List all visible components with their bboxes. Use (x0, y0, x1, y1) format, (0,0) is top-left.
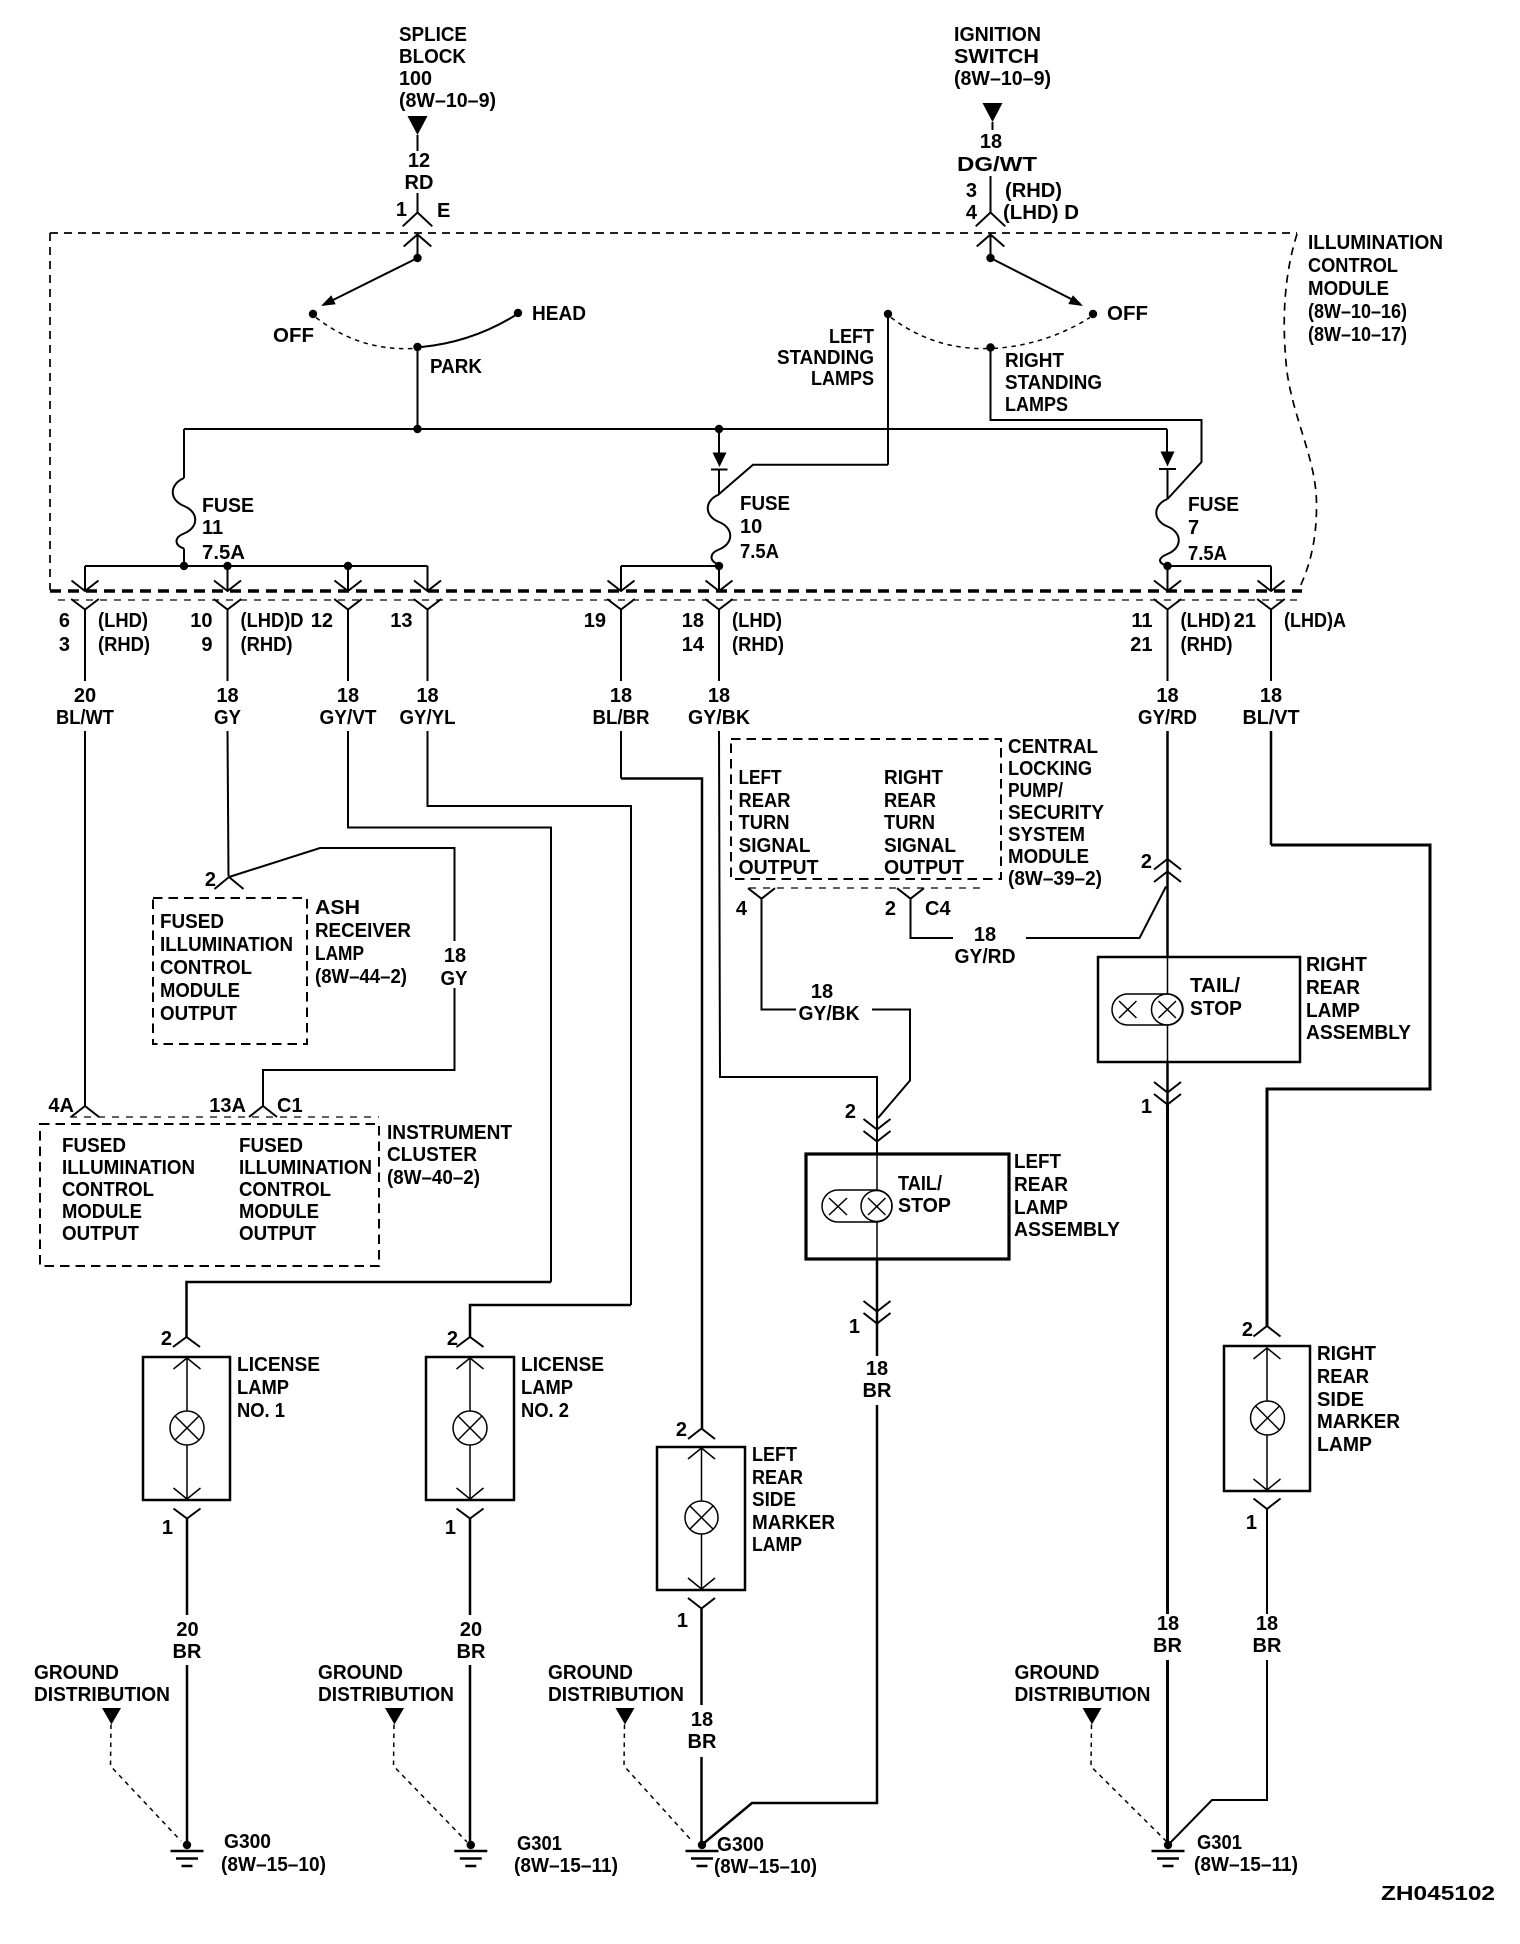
svg-text:1: 1 (677, 1610, 688, 1632)
svg-text:ASSEMBLY: ASSEMBLY (1306, 1022, 1412, 1044)
svg-text:DISTRIBUTION: DISTRIBUTION (318, 1684, 454, 1706)
fuse F11 (173, 478, 196, 549)
wire bus to fuse 10 (718, 429, 720, 453)
svg-text:(LHD)A: (LHD)A (1284, 610, 1346, 632)
inline connector 2 right tail (1154, 859, 1181, 870)
svg-text:18: 18 (980, 131, 1002, 153)
svg-text:1: 1 (849, 1316, 860, 1338)
svg-text:ASH: ASH (315, 897, 360, 919)
svg-text:1: 1 (1141, 1096, 1152, 1118)
wire through left tail box (876, 1154, 878, 1191)
svg-text:18: 18 (216, 685, 238, 707)
connector 4A fork (71, 1106, 99, 1117)
license lamp 1 top arrow (174, 1358, 201, 1369)
module output connector fork x=621 (607, 599, 635, 610)
svg-text:18: 18 (866, 1358, 888, 1380)
svg-text:MODULE: MODULE (1008, 846, 1089, 868)
lamp left rear side marker (685, 1501, 718, 1534)
left marker bottom arrow (701, 1534, 703, 1589)
license lamp 2 connector 1 fork (457, 1509, 484, 1519)
fuse F7 (1156, 499, 1179, 566)
license lamp 2 bottom arrow (469, 1445, 471, 1499)
svg-text:13A: 13A (209, 1095, 246, 1117)
svg-text:2: 2 (885, 898, 896, 920)
svg-text:LAMP: LAMP (1014, 1197, 1068, 1219)
wire 18 GY (227, 610, 229, 682)
svg-text:PUMP/: PUMP/ (1008, 780, 1063, 802)
svg-text:GY/BK: GY/BK (688, 707, 751, 729)
svg-text:LICENSE: LICENSE (521, 1354, 604, 1376)
svg-text:REAR: REAR (1306, 977, 1361, 999)
svg-text:G300: G300 (717, 1834, 764, 1856)
svg-text:CONTROL: CONTROL (62, 1179, 154, 1201)
wire right standing lamps (991, 347, 1202, 499)
svg-text:2: 2 (205, 869, 216, 891)
svg-text:7.5A: 7.5A (202, 542, 245, 564)
wire 18 GY to 13A (263, 988, 455, 1106)
svg-text:11: 11 (202, 517, 223, 539)
wire rail to pin18 (718, 566, 720, 591)
svg-text:(8W–15–10): (8W–15–10) (221, 1854, 326, 1876)
svg-text:(LHD) D: (LHD) D (1003, 202, 1079, 224)
svg-text:DISTRIBUTION: DISTRIBUTION (1015, 1684, 1151, 1706)
module bottom connector line (58, 599, 1299, 601)
wire rail to pin12 (347, 566, 349, 591)
switch wiper arrow to OFF right (991, 258, 1081, 304)
wire from splice block (417, 135, 419, 151)
svg-text:(8W–10–9): (8W–10–9) (954, 68, 1051, 90)
svg-text:C1: C1 (277, 1095, 303, 1117)
svg-text:STANDING: STANDING (777, 347, 874, 369)
svg-text:LAMP: LAMP (1306, 1000, 1360, 1022)
wire PARK down to bus (417, 347, 419, 429)
wire rail to pin11 (1167, 566, 1169, 591)
wire 18 GY/RD (1167, 610, 1169, 682)
svg-text:4A: 4A (48, 1095, 74, 1117)
svg-text:RIGHT: RIGHT (1306, 954, 1367, 976)
module output pin arrow x=621 (608, 581, 635, 592)
svg-text:C4: C4 (925, 898, 951, 920)
svg-text:(8W–44–2): (8W–44–2) (315, 966, 407, 988)
illumination control module left border (49, 233, 51, 590)
svg-text:3: 3 (966, 180, 977, 202)
svg-text:HEAD: HEAD (532, 303, 586, 325)
svg-text:GROUND: GROUND (548, 1662, 633, 1684)
switch arc OFF-PARK dashed (316, 318, 413, 349)
svg-text:MODULE: MODULE (1308, 278, 1389, 300)
illumination control module top border (50, 232, 1297, 234)
pin E male arrow (404, 235, 432, 247)
svg-text:4: 4 (736, 898, 748, 920)
svg-text:G300: G300 (224, 1831, 271, 1853)
wire right marker feed (1267, 845, 1430, 1320)
svg-text:SPLICE: SPLICE (399, 24, 467, 46)
svg-text:18: 18 (811, 981, 833, 1003)
module output pin arrow x=1167.5 (1154, 581, 1181, 592)
svg-text:BR: BR (1153, 1635, 1182, 1657)
wire 20 BR lamp2 lower (469, 1665, 472, 1845)
right marker bottom arrow (1266, 1435, 1268, 1490)
license lamp 1 bottom arrow (186, 1445, 188, 1499)
wire from ignition switch (992, 122, 994, 130)
wire left standing lamps to fuse 10 (719, 465, 889, 495)
svg-text:GY: GY (441, 968, 469, 990)
svg-text:(8W–39–2): (8W–39–2) (1008, 868, 1102, 890)
switch arc right dashed (891, 318, 988, 349)
svg-text:9: 9 (201, 634, 212, 656)
svg-text:DISTRIBUTION: DISTRIBUTION (548, 1684, 684, 1706)
wire left marker feed (621, 779, 702, 1423)
wire 18 GY/YL (427, 610, 429, 682)
svg-text:20: 20 (460, 1619, 482, 1641)
svg-text:BR: BR (457, 1641, 486, 1663)
wire 18 BL/BR (620, 610, 622, 682)
svg-text:REAR: REAR (1317, 1366, 1370, 1388)
junction dot fuse10 out (715, 562, 723, 570)
svg-text:18: 18 (974, 924, 996, 946)
lamp license 1 (170, 1411, 204, 1445)
svg-text:RIGHT: RIGHT (1317, 1343, 1376, 1365)
svg-text:18: 18 (691, 1709, 713, 1731)
wire 18 BR right tail (1166, 1105, 1169, 1615)
svg-text:GY/YL: GY/YL (400, 707, 456, 729)
splice block feed triangle (408, 116, 428, 135)
connection triangle fuse 10 (713, 453, 727, 468)
svg-text:OUTPUT: OUTPUT (739, 857, 819, 879)
wire 18 BR left marker (700, 1609, 703, 1706)
svg-text:REAR: REAR (884, 790, 937, 812)
svg-text:REAR: REAR (752, 1467, 803, 1489)
svg-text:18: 18 (1157, 1613, 1179, 1635)
node PARK (413, 343, 421, 351)
svg-text:GY/VT: GY/VT (320, 707, 377, 729)
svg-text:GROUND: GROUND (34, 1662, 119, 1684)
svg-text:2: 2 (447, 1328, 458, 1350)
svg-text:(RHD): (RHD) (241, 634, 293, 656)
junction dot fuse7 out (1163, 562, 1171, 570)
svg-text:(LHD)D: (LHD)D (241, 610, 304, 632)
svg-text:GY/BK: GY/BK (799, 1003, 861, 1025)
svg-text:100: 100 (399, 68, 432, 90)
svg-text:LOCKING: LOCKING (1008, 758, 1092, 780)
left marker connector 1 fork (688, 1598, 715, 1609)
node OFF left (309, 310, 317, 318)
module output pin arrow x=719 (706, 581, 733, 592)
svg-text:(8W–15–11): (8W–15–11) (1194, 1854, 1298, 1876)
svg-text:3: 3 (59, 634, 70, 656)
svg-text:2: 2 (845, 1101, 856, 1123)
right marker top arrow (1254, 1348, 1281, 1359)
svg-text:20: 20 (176, 1619, 198, 1641)
junction dot park-bus (413, 425, 421, 433)
svg-text:NO. 2: NO. 2 (521, 1400, 569, 1422)
wire 20 BR lamp2 (469, 1519, 472, 1616)
wire 18 BR right marker lower (1170, 1660, 1267, 1843)
svg-text:6: 6 (59, 610, 70, 632)
fuse 11 output rail (85, 565, 428, 567)
svg-text:12: 12 (408, 150, 430, 172)
svg-text:RD: RD (405, 172, 434, 194)
svg-text:7.5A: 7.5A (1188, 543, 1227, 565)
left marker connector 2 fork (688, 1429, 715, 1440)
module output connector fork x=1271 (1257, 599, 1285, 610)
wire rail to pin13 (427, 566, 429, 591)
svg-text:LAMP: LAMP (315, 943, 364, 965)
svg-text:2: 2 (1242, 1319, 1253, 1341)
svg-text:18: 18 (337, 685, 359, 707)
wire 20 BL/WT (84, 610, 86, 682)
lamp license 2 (453, 1411, 487, 1445)
license lamp 1 connector 1 fork (174, 1509, 201, 1519)
svg-text:2: 2 (1141, 851, 1152, 873)
svg-text:BL/VT: BL/VT (1243, 707, 1300, 729)
junction dot rail w3 (344, 562, 352, 570)
junction dot rail w2 (223, 562, 231, 570)
svg-text:BR: BR (688, 1731, 717, 1753)
svg-text:OUTPUT: OUTPUT (884, 857, 964, 879)
wire 18 BR left tail lower (704, 1405, 878, 1844)
ground G300 second (698, 1841, 706, 1849)
svg-text:10: 10 (740, 516, 762, 538)
license lamp1 connector 2 fork (173, 1337, 200, 1347)
fuse 7 output rail (1168, 565, 1272, 567)
svg-text:OFF: OFF (1107, 303, 1148, 325)
svg-text:FUSE: FUSE (1188, 494, 1239, 516)
module output pin arrow x=348 (335, 581, 362, 592)
connector 13A C1 fork (249, 1106, 277, 1117)
svg-text:ILLUMINATION: ILLUMINATION (239, 1157, 372, 1179)
svg-text:LAMPS: LAMPS (811, 368, 874, 390)
svg-text:(8W–10–17): (8W–10–17) (1308, 324, 1407, 346)
svg-text:STOP: STOP (1190, 998, 1242, 1020)
wire 18 BL/VT (1270, 610, 1272, 682)
svg-text:SECURITY: SECURITY (1008, 802, 1105, 824)
wire 20 BR lamp1 lower (186, 1665, 189, 1845)
wire turn signal 4 to splice (762, 899, 797, 1010)
wire 20 BR lamp1 (186, 1519, 189, 1616)
wire through right tail box (1167, 957, 1169, 994)
wire rail to pin6 (84, 566, 86, 591)
svg-text:ILLUMINATION: ILLUMINATION (62, 1157, 195, 1179)
connector 1-E fork (417, 193, 419, 213)
svg-text:SWITCH: SWITCH (954, 46, 1039, 68)
ash receiver lamp box (153, 898, 307, 1044)
wire bus to fuse 11 (183, 429, 185, 478)
svg-text:FUSE: FUSE (740, 493, 790, 515)
svg-text:LAMPS: LAMPS (1005, 394, 1068, 416)
wire rail to pin21A (1270, 566, 1272, 591)
svg-text:ILLUMINATION: ILLUMINATION (1308, 232, 1443, 254)
svg-text:14: 14 (682, 634, 705, 656)
module output connector fork x=85 (71, 599, 99, 610)
svg-text:NO. 1: NO. 1 (237, 1400, 285, 1422)
module output connector fork x=348 (334, 599, 362, 610)
svg-text:GROUND: GROUND (318, 1662, 403, 1684)
svg-text:ILLUMINATION: ILLUMINATION (160, 934, 293, 956)
svg-text:IGNITION: IGNITION (954, 24, 1041, 46)
svg-text:FUSE: FUSE (202, 495, 254, 517)
svg-text:TURN: TURN (739, 812, 790, 834)
svg-text:LEFT: LEFT (1014, 1151, 1061, 1173)
svg-text:(RHD): (RHD) (1005, 180, 1062, 202)
svg-text:G301: G301 (1197, 1832, 1242, 1854)
svg-text:(RHD): (RHD) (98, 634, 150, 656)
svg-text:SIDE: SIDE (752, 1489, 796, 1511)
svg-text:BLOCK: BLOCK (399, 46, 467, 68)
instrument cluster box (40, 1124, 379, 1266)
connection triangle fuse 7 (1161, 452, 1175, 467)
svg-text:REAR: REAR (739, 790, 792, 812)
switch pivot dot right (986, 254, 994, 262)
svg-text:FUSED: FUSED (239, 1135, 303, 1157)
svg-text:18: 18 (1256, 1613, 1278, 1635)
svg-text:CONTROL: CONTROL (1308, 255, 1398, 277)
license lamp 2 top arrow (457, 1358, 484, 1369)
svg-text:FUSED: FUSED (160, 911, 224, 933)
right rear side marker box (1224, 1346, 1310, 1491)
svg-text:MODULE: MODULE (160, 980, 240, 1002)
wire rail to pin10 (227, 566, 229, 591)
svg-text:CENTRAL: CENTRAL (1008, 736, 1098, 758)
svg-text:E: E (437, 200, 450, 222)
left rear lamp assembly box (806, 1154, 1009, 1259)
inline connector 1 left tail (876, 1259, 879, 1356)
wire 18 GY/VT (347, 610, 349, 682)
svg-text:BR: BR (863, 1380, 892, 1402)
svg-text:10: 10 (190, 610, 212, 632)
wire license lamp2 feed (470, 1305, 631, 1330)
svg-text:13: 13 (390, 610, 412, 632)
svg-text:GY/RD: GY/RD (955, 946, 1016, 968)
svg-text:MODULE: MODULE (62, 1201, 142, 1223)
inline connector 2 left tail (864, 1119, 891, 1130)
wire left standing lamps down (887, 314, 889, 465)
ground G301 second (1164, 1841, 1172, 1849)
ash receiver connector 2 fork (215, 877, 244, 889)
node right park position (986, 343, 994, 351)
svg-text:(8W–10–9): (8W–10–9) (399, 90, 496, 112)
wire C4 to right tail (911, 899, 954, 939)
svg-text:18: 18 (444, 945, 466, 967)
module output connector fork x=719 (705, 599, 733, 610)
inline connector 1 right tail (1166, 1062, 1169, 1105)
instrument cluster connector line (70, 1116, 379, 1118)
svg-text:OUTPUT: OUTPUT (62, 1223, 139, 1245)
svg-text:ZH045102: ZH045102 (1381, 1883, 1495, 1905)
svg-text:18: 18 (682, 610, 704, 632)
svg-text:DG/WT: DG/WT (957, 154, 1037, 176)
central locking connector line (749, 887, 983, 889)
node HEAD (514, 309, 522, 317)
wire 18 BR left marker lower (700, 1757, 703, 1845)
pin D male arrow (977, 235, 1005, 247)
svg-text:MARKER: MARKER (752, 1512, 836, 1534)
svg-text:G301: G301 (517, 1833, 562, 1855)
svg-text:2: 2 (161, 1328, 172, 1350)
svg-text:19: 19 (584, 610, 606, 632)
wire splice to instrument cluster (229, 848, 455, 941)
fuse 10 output rail (621, 565, 719, 567)
svg-text:TAIL/: TAIL/ (898, 1173, 942, 1195)
svg-text:LICENSE: LICENSE (237, 1354, 320, 1376)
module output pin arrow x=85 (72, 581, 99, 592)
svg-text:18: 18 (416, 685, 438, 707)
svg-text:SIDE: SIDE (1317, 1389, 1364, 1411)
svg-text:RECEIVER: RECEIVER (315, 920, 412, 942)
wire 18 GY/BK (718, 610, 720, 682)
svg-text:TURN: TURN (884, 812, 935, 834)
left marker top arrow (688, 1448, 715, 1459)
svg-text:7.5A: 7.5A (740, 541, 779, 563)
svg-text:GROUND: GROUND (1015, 1662, 1100, 1684)
svg-text:(LHD): (LHD) (732, 610, 782, 632)
svg-text:LEFT: LEFT (752, 1444, 797, 1466)
illumination control module right brace border (1284, 234, 1316, 590)
svg-text:PARK: PARK (430, 356, 483, 378)
svg-text:12: 12 (311, 610, 333, 632)
lamp right rear side marker (1251, 1401, 1285, 1435)
wire bus to fuse 7 (1166, 429, 1168, 452)
svg-text:DISTRIBUTION: DISTRIBUTION (34, 1684, 170, 1706)
svg-text:SYSTEM: SYSTEM (1008, 824, 1085, 846)
bus wire (184, 428, 1167, 430)
svg-text:LAMP: LAMP (237, 1377, 289, 1399)
ignition switch feed triangle (983, 103, 1003, 122)
svg-text:18: 18 (610, 685, 632, 707)
left rear side marker box (657, 1447, 745, 1590)
svg-text:1: 1 (445, 1517, 456, 1539)
svg-text:OUTPUT: OUTPUT (160, 1003, 237, 1025)
svg-text:STOP: STOP (898, 1195, 951, 1217)
central locking connector C4 fork (897, 888, 924, 899)
svg-text:(8W–15–10): (8W–15–10) (714, 1856, 817, 1878)
module output connector fork x=227.5 (214, 599, 242, 610)
svg-text:LAMP: LAMP (752, 1534, 802, 1556)
svg-text:GY/RD: GY/RD (1138, 707, 1197, 729)
central locking connector 4 fork (748, 888, 775, 899)
svg-text:TAIL/: TAIL/ (1190, 975, 1240, 997)
svg-text:2: 2 (676, 1419, 687, 1441)
svg-text:1: 1 (396, 199, 407, 221)
wire 18 BR right marker (1266, 1509, 1268, 1614)
svg-text:SIGNAL: SIGNAL (739, 835, 811, 857)
license lamp2 connector 2 fork (457, 1337, 484, 1347)
module output pin arrow x=427.5 (414, 581, 441, 592)
svg-text:(LHD): (LHD) (1181, 610, 1231, 632)
svg-text:21: 21 (1234, 610, 1256, 632)
junction dot fuse10-bus (715, 425, 723, 433)
node OFF right (1089, 310, 1097, 318)
module output pin arrow x=227.5 (214, 581, 241, 592)
svg-text:18: 18 (1260, 685, 1282, 707)
fuse F10 (708, 495, 731, 565)
svg-text:1: 1 (162, 1517, 173, 1539)
right marker connector 1 fork (1254, 1499, 1281, 1510)
module output connector fork x=427.5 (414, 599, 442, 610)
svg-text:SIGNAL: SIGNAL (884, 835, 956, 857)
svg-text:18: 18 (1156, 685, 1178, 707)
svg-text:LAMP: LAMP (521, 1377, 573, 1399)
right rear lamp assembly box (1098, 957, 1300, 1062)
svg-text:(RHD): (RHD) (1181, 634, 1233, 656)
junction dot fuse11 out (180, 562, 188, 570)
svg-text:LAMP: LAMP (1317, 1434, 1372, 1456)
ground G300 (183, 1841, 191, 1849)
svg-text:CONTROL: CONTROL (160, 957, 252, 979)
svg-text:ASSEMBLY: ASSEMBLY (1014, 1219, 1121, 1241)
ground G301 (467, 1841, 475, 1849)
svg-text:INSTRUMENT: INSTRUMENT (387, 1122, 512, 1144)
